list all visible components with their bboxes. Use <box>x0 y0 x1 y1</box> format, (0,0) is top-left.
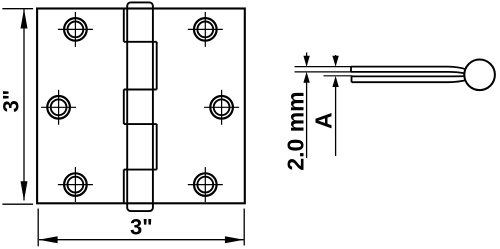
A dimension lower arrow (up) <box>332 76 338 87</box>
svg-text:3": 3" <box>0 90 24 113</box>
screw hole bottom-right <box>188 167 223 202</box>
svg-text:A: A <box>310 112 336 129</box>
A dimension upper stub <box>335 55 337 59</box>
left dimension extension line bottom <box>2 203 33 205</box>
bottom dimension arrow left <box>39 236 58 243</box>
knuckle K1 left edge <box>123 9 125 42</box>
screw hole middle-right <box>204 90 239 125</box>
left dimension arrow up <box>21 9 28 29</box>
side view: extension line 3 (top of bottom leaf) <box>324 75 353 77</box>
A dimension lower stub <box>335 86 337 156</box>
A dimension upper arrow (down) <box>332 56 338 67</box>
left dimension arrow down <box>21 181 28 201</box>
knuckle joint line 2 <box>124 89 157 91</box>
bottom dimension arrow right <box>225 236 244 243</box>
svg-text:3": 3" <box>130 215 153 240</box>
bottom dimension line <box>39 239 244 241</box>
left dimension extension line top <box>2 8 33 10</box>
bottom dimension extension line right <box>243 209 245 246</box>
2.0 mm dimension upper stub <box>306 53 308 58</box>
2.0 mm dimension upper arrow (down) <box>303 56 309 67</box>
side view: leaf thickness extension line 2 (bottom of top leaf) <box>295 71 353 73</box>
screw hole top-right <box>188 12 223 47</box>
hinge pin (full-height rounded rect with head and tip) <box>127 2 153 211</box>
screw hole bottom-left <box>58 167 93 202</box>
knuckle joint line 3 <box>124 123 157 125</box>
screw hole middle-left <box>41 90 76 125</box>
screw hole top-left <box>58 12 93 47</box>
svg-text:2.0 mm: 2.0 mm <box>283 91 309 170</box>
side view: bottom leaf <box>352 76 467 82</box>
knuckle joint line 4 <box>124 169 157 171</box>
knuckle K3 left edge <box>123 90 125 125</box>
knuckle K4 right edge <box>156 124 158 170</box>
hinge leaf outline (front view rectangle) <box>37 9 245 204</box>
knuckle K5 left edge <box>123 170 125 204</box>
left dimension line <box>23 9 25 200</box>
bottom dimension extension line left <box>37 209 39 247</box>
knuckle joint line 1 <box>124 41 157 43</box>
side view: knuckle circle <box>464 60 495 91</box>
2.0 mm dimension lower stub <box>306 82 308 158</box>
2.0 mm dimension lower arrow (up) <box>303 72 309 83</box>
side view: leaf thickness extension line 1 (top of top leaf) <box>295 66 353 68</box>
knuckle K2 right edge <box>156 42 158 90</box>
side view: top leaf <box>351 67 467 74</box>
